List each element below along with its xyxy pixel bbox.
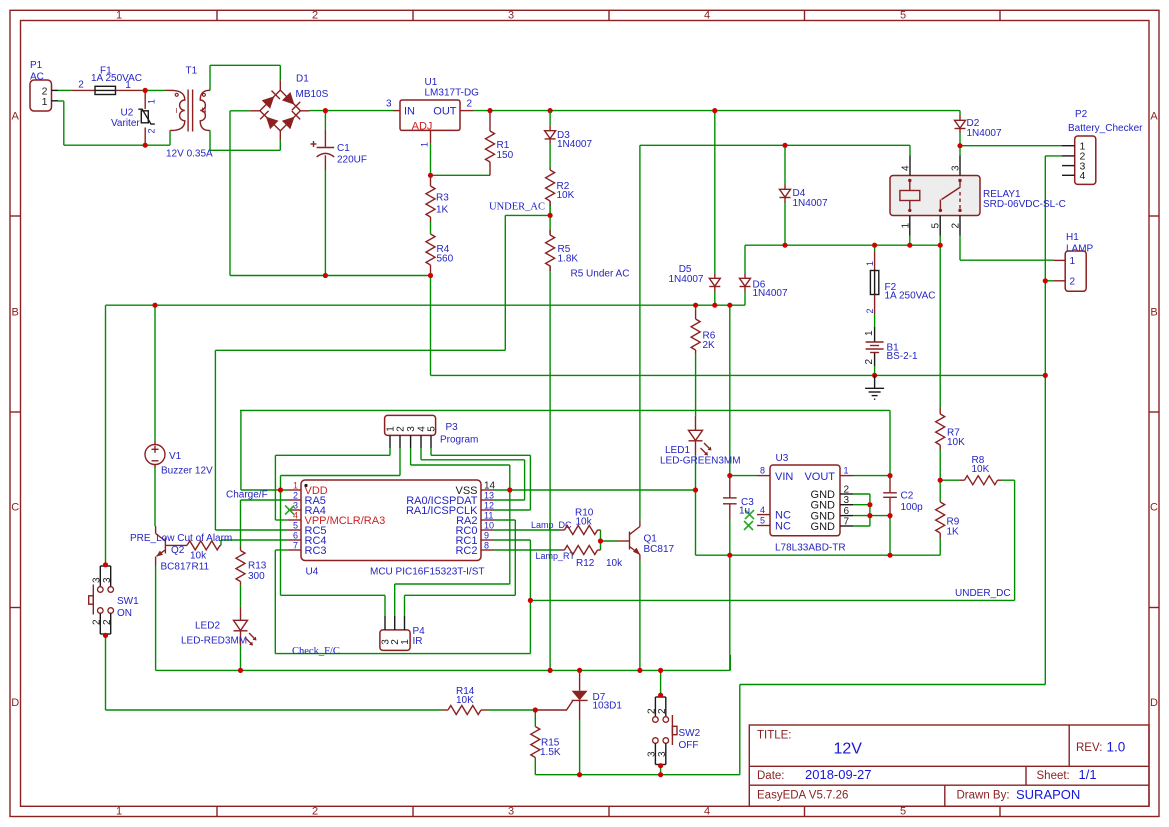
svg-text:10K: 10K: [557, 190, 575, 201]
wire VSS node down to P4 pin2: [395, 490, 510, 616]
diode D2 1N4007: [955, 116, 1002, 139]
battery B1 BS-2-1: [864, 327, 918, 366]
svg-text:Sheet:: Sheet:: [1037, 770, 1070, 782]
svg-text:10: 10: [484, 521, 494, 531]
svg-text:I: I: [176, 108, 178, 115]
no-connect X on MCU RA4: [285, 506, 294, 515]
diode D6 1N4007: [740, 274, 788, 299]
svg-text:R3: R3: [436, 193, 449, 204]
connector P3 Program: [385, 415, 479, 448]
junction node D5 top on 12V rail: [712, 108, 717, 113]
svg-text:1N4007: 1N4007: [753, 288, 788, 299]
svg-text:11: 11: [484, 511, 493, 521]
wire C1 top tap: [324, 111, 326, 130]
svg-text:2: 2: [312, 10, 318, 22]
svg-text:1.5K: 1.5K: [540, 747, 561, 758]
svg-text:2: 2: [844, 485, 850, 496]
ground symbol: [865, 375, 884, 399]
svg-text:4: 4: [704, 10, 710, 22]
wire AC input from P1 pin2 to fuse F1: [58, 89, 72, 91]
svg-text:5: 5: [427, 426, 438, 432]
wire C3 bottom to U3 ground rail: [729, 520, 731, 556]
LED2 LED-RED3MM: [181, 607, 257, 647]
resistor R14 10K: [442, 686, 488, 715]
svg-text:H1: H1: [1066, 232, 1079, 243]
capacitor C2 100p: [883, 476, 923, 519]
connector P4 IR: [380, 616, 425, 650]
svg-text:NC: NC: [775, 520, 791, 532]
svg-text:B: B: [12, 307, 19, 319]
svg-text:C1: C1: [337, 143, 350, 154]
wire main 12V rail U1 OUT to D2: [473, 111, 960, 116]
junction node battery sense rail: [1043, 373, 1048, 378]
svg-text:4: 4: [293, 511, 298, 521]
svg-text:3: 3: [508, 10, 514, 22]
svg-text:EasyEDA V5.7.26: EasyEDA V5.7.26: [757, 790, 848, 802]
svg-text:MCU PIC16F15323T-I/ST: MCU PIC16F15323T-I/ST: [370, 566, 484, 577]
svg-text:3: 3: [657, 751, 668, 757]
wire D7 anode from GND rail: [579, 669, 581, 671]
junction node H1 pin2 battery sense: [1043, 278, 1048, 283]
svg-text:P3: P3: [446, 422, 459, 433]
resistor R7 10K: [936, 408, 965, 451]
svg-text:OFF: OFF: [679, 740, 699, 751]
svg-text:1.0: 1.0: [1107, 740, 1126, 755]
junction node R14/R15/D7 gate: [533, 707, 538, 712]
svg-text:P1: P1: [30, 60, 43, 71]
wire U1 ADJ to R3: [430, 143, 432, 175]
junction node B1 bottom / AC-detect rail: [872, 373, 877, 378]
fuse F1: [72, 65, 142, 94]
svg-text:LED-RED3MM: LED-RED3MM: [181, 635, 247, 646]
wire P1 pin1 down to primary bottom rail: [58, 101, 170, 145]
svg-text:3: 3: [406, 426, 417, 432]
svg-text:4: 4: [760, 505, 765, 515]
svg-text:1: 1: [42, 96, 48, 108]
svg-text:UNDER_AC: UNDER_AC: [489, 201, 545, 212]
resistor R9 1K: [936, 502, 960, 539]
svg-text:12V: 12V: [834, 740, 863, 757]
svg-text:5: 5: [900, 806, 906, 818]
svg-text:3: 3: [386, 98, 392, 109]
wire UNDER_AC net from R2/R5 node to MCU RC5 column: [215, 215, 550, 530]
wire D2 cathode node to P2 pin1: [960, 134, 1062, 156]
svg-text:ON: ON: [117, 608, 132, 619]
svg-text:SW1: SW1: [117, 596, 139, 607]
relay RELAY1 SRD-06VDC-SL-C: [890, 156, 1066, 236]
junction node SW2 top: [658, 693, 663, 698]
wire MCU RC0 to R10: [494, 529, 559, 531]
svg-text:SRD-06VDC-SL-C: SRD-06VDC-SL-C: [983, 199, 1066, 210]
diode D5 1N4007: [668, 264, 720, 292]
svg-text:UNDER_DC: UNDER_DC: [955, 588, 1011, 599]
svg-text:1: 1: [420, 142, 430, 147]
svg-text:1A 250VAC: 1A 250VAC: [885, 291, 936, 302]
net label Check_F/C: [292, 646, 340, 657]
wire R6 from +12 rail down to LED1: [695, 305, 697, 416]
svg-text:V1: V1: [169, 451, 182, 462]
junction node MCU VDD: [278, 487, 283, 492]
svg-text:1N4007: 1N4007: [557, 139, 592, 150]
svg-text:1: 1: [293, 481, 298, 491]
svg-text:2: 2: [312, 806, 318, 818]
wire MCU RC1 to UNDER_DC node: [494, 540, 530, 600]
svg-text:4: 4: [704, 806, 710, 818]
svg-text:B: B: [1150, 307, 1157, 319]
svg-text:GND: GND: [811, 521, 836, 533]
svg-text:Check_F/C: Check_F/C: [292, 646, 340, 657]
svg-text:8: 8: [760, 466, 765, 476]
resistor R13 300: [236, 547, 267, 585]
wire VIN feed from +12 rail to U3/C3: [730, 305, 757, 475]
wire R10/R12 node to Q1 base: [601, 530, 618, 550]
thyristor D7 103D1: [535, 670, 622, 719]
svg-text:R5 Under AC: R5 Under AC: [571, 269, 630, 280]
svg-text:2: 2: [293, 491, 298, 501]
svg-text:9: 9: [484, 531, 489, 541]
svg-text:Drawn By:: Drawn By:: [957, 790, 1010, 802]
wire H1 pin2 tap: [1045, 280, 1054, 282]
bridge rectifier D1: [250, 74, 328, 141]
resistor R5 1.8K: [546, 230, 579, 271]
svg-text:1K: 1K: [947, 526, 960, 537]
connector P1 AC: [30, 60, 58, 111]
svg-text:RC2: RC2: [455, 545, 477, 557]
svg-text:2: 2: [1070, 277, 1076, 288]
regulator U3 L78L33ABD-TR: [757, 453, 853, 553]
switch SW2 OFF: [647, 697, 701, 765]
svg-text:7: 7: [293, 541, 298, 551]
wire R1 bottom to ADJ node: [431, 174, 491, 176]
junction node relay pin1: [907, 243, 912, 248]
svg-text:VOUT: VOUT: [804, 471, 835, 483]
svg-text:220UF: 220UF: [337, 155, 367, 166]
svg-text:1K: 1K: [436, 205, 449, 216]
wire U3 ground rail down to GND rail: [729, 555, 731, 670]
wire D3 to R2: [549, 144, 551, 167]
svg-text:A: A: [12, 111, 20, 123]
svg-text:U3: U3: [776, 453, 789, 464]
svg-text:2: 2: [657, 708, 668, 714]
svg-text:T1: T1: [186, 66, 198, 77]
resistor R3 1K: [426, 175, 449, 222]
junction node C2 bottom rail: [887, 553, 892, 558]
junction node R7/R8/R9: [938, 478, 943, 483]
wire relay pin5 to contact rail and down to R7: [939, 236, 941, 408]
svg-text:SW2: SW2: [679, 728, 701, 739]
wire SW1 top from +12 rail: [105, 305, 107, 565]
svg-text:R11: R11: [192, 561, 210, 572]
svg-text:2K: 2K: [703, 340, 716, 351]
wire V1 to Q2 collector: [154, 468, 156, 526]
junction node R6 top: [693, 303, 698, 308]
junction node U1 OUT / R1: [487, 108, 492, 113]
wire P3 pin2 to VDD node: [281, 448, 401, 490]
svg-text:BS-2-1: BS-2-1: [887, 351, 919, 362]
svg-text:D: D: [11, 697, 19, 709]
resistor R15 1.5K: [531, 727, 561, 759]
svg-text:10k: 10k: [190, 551, 207, 562]
junction node VOUT/C2: [887, 473, 892, 478]
wire D6 anode from relay contact rail: [744, 245, 746, 273]
wire F2 top from relay contact rail: [874, 245, 876, 252]
connector P2 Battery_Checker: [1062, 109, 1143, 184]
svg-text:3: 3: [102, 577, 113, 583]
svg-text:R12: R12: [576, 558, 595, 569]
svg-text:U4: U4: [306, 566, 319, 577]
transistor Q2 BC817: [156, 526, 192, 572]
svg-text:U1: U1: [425, 77, 438, 88]
svg-text:10k: 10k: [606, 558, 623, 569]
svg-text:U2: U2: [121, 108, 134, 119]
net label Charge/F: [226, 490, 268, 501]
wire bridge positive to main +DC rail: [310, 110, 393, 112]
junction node SW1 bottom: [103, 633, 108, 638]
wire MCU RA2 to P4 pin1: [405, 520, 516, 616]
svg-text:6: 6: [844, 506, 850, 517]
wire R8 to UNDER_DC run: [530, 480, 1014, 600]
junction node UNDER_AC R2/R5: [548, 213, 553, 218]
wire T1 secondary top to bridge top: [210, 65, 280, 90]
svg-text:Battery_Checker: Battery_Checker: [1068, 123, 1143, 134]
svg-text:OUT: OUT: [433, 106, 457, 118]
junction node R10/R12/Q1 base: [598, 538, 603, 543]
resistor R2 10K: [546, 167, 575, 215]
svg-text:2: 2: [467, 98, 473, 109]
svg-text:Charge/F: Charge/F: [226, 490, 268, 501]
junction node C1 bottom rail: [323, 273, 328, 278]
junction node D2 cathode / P2 pin1 / relay pin3: [957, 143, 962, 148]
svg-text:1N4007: 1N4007: [668, 274, 703, 285]
wire P3 pin5 to MCU ICSPCLK: [431, 448, 530, 510]
svg-text:560: 560: [437, 254, 454, 265]
junction node SW2 bottom: [658, 763, 663, 768]
junction nodes U3 GND pins: [867, 502, 892, 518]
svg-text:1.8K: 1.8K: [558, 254, 579, 265]
svg-text:3: 3: [951, 165, 962, 171]
svg-text:150: 150: [497, 150, 514, 161]
svg-text:1/1: 1/1: [1079, 767, 1097, 782]
wire T1 secondary bottom to bridge bottom: [210, 130, 280, 150]
svg-text:2: 2: [865, 308, 875, 313]
net label PRE_Low Cut of Alarm: [130, 533, 232, 544]
svg-text:10K: 10K: [947, 437, 965, 448]
net label Lamp_RT: [536, 551, 576, 561]
svg-text:1: 1: [1070, 256, 1076, 267]
svg-text:REV:: REV:: [1076, 742, 1102, 754]
wire relay contact rail: [745, 244, 940, 246]
capacitor C1: [311, 129, 368, 170]
svg-text:1: 1: [865, 261, 875, 266]
wire relay coil rail from Q1 collector: [640, 145, 910, 520]
pin number 2 on P1-F1 wire: [78, 80, 84, 91]
svg-text:Variter: Variter: [111, 118, 140, 129]
wire D5 anode from 12V rail: [714, 111, 716, 274]
svg-text:1N4007: 1N4007: [793, 198, 828, 209]
resistor R6->LED1 column: LED1 LED-GREEN3MM: [660, 416, 741, 466]
svg-text:1: 1: [864, 330, 875, 336]
junction node relay pin5 / R7: [938, 243, 943, 248]
junction nodes on battery sense rail: [577, 772, 663, 777]
wire P3 pin3 to VSS node: [411, 448, 510, 490]
svg-text:A: A: [1150, 111, 1158, 123]
svg-text:VIN: VIN: [775, 471, 793, 483]
wire R2 bottom node to R5: [549, 201, 551, 235]
svg-text:C: C: [11, 502, 19, 514]
wire D7 cathode down to battery sense rail: [579, 720, 581, 775]
resistor R10 10k: [559, 508, 601, 535]
junction node Check_F/C / RC1 / UNDER_DC: [528, 598, 533, 603]
svg-text:BC817: BC817: [161, 561, 192, 572]
svg-text:C: C: [1150, 502, 1158, 514]
svg-text:L78L33ABD-TR: L78L33ABD-TR: [775, 542, 846, 553]
svg-text:TITLE:: TITLE:: [757, 730, 792, 742]
net label UNDER_DC: [955, 588, 1011, 599]
wire R9 bottom to U3 ground rail: [939, 539, 941, 556]
wire B1 negative to AC-detect rail and ground: [874, 366, 876, 375]
svg-text:5: 5: [931, 223, 942, 229]
buzzer V1: [145, 441, 213, 477]
junction node ADJ/R3: [428, 173, 433, 178]
wire U3 GND pins bus: [853, 494, 890, 526]
junction node VIN/C3: [727, 473, 732, 478]
svg-text:12V 0.35A: 12V 0.35A: [166, 149, 213, 160]
junction node U2 bottom rail: [143, 143, 148, 148]
svg-text:PRE_Low Cut of Alarm: PRE_Low Cut of Alarm: [130, 533, 232, 544]
svg-text:1: 1: [147, 99, 157, 104]
junction node C3 bottom rail: [727, 553, 732, 558]
svg-text:1: 1: [901, 223, 912, 229]
svg-text:2: 2: [78, 80, 84, 91]
wire P3 pin4 to MCU ICSPDAT: [421, 448, 525, 500]
wire R11 to MCU RC4 and P4 pin3 column: [221, 540, 288, 545]
wire R13 to LED2: [240, 585, 242, 607]
svg-text:LED2: LED2: [195, 621, 220, 632]
svg-text:1A 250VAC: 1A 250VAC: [91, 73, 142, 84]
wire SW2 bottom to battery sense rail: [660, 766, 662, 775]
wire VSS rail right of MCU: [494, 489, 696, 491]
svg-text:D: D: [1150, 697, 1158, 709]
wire F2 to B1: [874, 314, 876, 327]
junction node VSS / P3 pin3: [507, 487, 512, 492]
svg-text:2: 2: [951, 223, 962, 229]
svg-text:1: 1: [116, 806, 122, 818]
svg-text:RC3: RC3: [305, 545, 327, 557]
diode D3 1N4007: [545, 111, 593, 150]
svg-text:Date:: Date:: [757, 770, 785, 782]
svg-text:1u: 1u: [739, 505, 750, 516]
svg-text:12: 12: [484, 501, 494, 511]
wire LED1 cathode to VSS rail: [695, 455, 697, 555]
wire SW1 bottom to bottom rail: [106, 635, 442, 710]
svg-text:5: 5: [293, 521, 298, 531]
wire MCU RC2 to R12: [494, 549, 559, 551]
svg-text:MB10S: MB10S: [296, 89, 329, 100]
svg-text:8: 8: [484, 541, 489, 551]
pin number 1 on F1-T1 wire: [125, 80, 131, 91]
wire relay pin1 to contact rail: [909, 236, 911, 246]
junction node R4 bottom: [428, 273, 433, 278]
junction node VIN column top: [727, 303, 732, 308]
wire bridge negative to C1 bottom rail: [230, 111, 431, 276]
wire VOUT to C2 top: [853, 475, 890, 477]
svg-text:BC817: BC817: [644, 544, 675, 555]
svg-text:5: 5: [900, 10, 906, 22]
svg-text:1N4007: 1N4007: [967, 128, 1002, 139]
svg-text:4: 4: [901, 165, 912, 171]
svg-text:10K: 10K: [456, 695, 474, 706]
svg-text:1: 1: [844, 466, 849, 476]
svg-text:P2: P2: [1075, 109, 1088, 120]
junction node D4 bottom on contact rail: [782, 243, 787, 248]
junction node C1 top on 12V rail: [323, 108, 328, 113]
wire C2 bottom to U3 ground rail: [889, 519, 891, 555]
net label UNDER_AC: [489, 201, 545, 212]
resistor R8 10K: [960, 455, 1002, 485]
wire D4 flyback across relay coil: [784, 145, 786, 245]
wire buzzer V1 feed from +12 rail: [154, 305, 156, 441]
wire Q2 emitter to GND rail: [156, 566, 731, 670]
title block: [749, 725, 1149, 806]
svg-text:3: 3: [508, 806, 514, 818]
wire Q1 emitter to GND rail: [639, 561, 641, 671]
wire U3 ground rail: [696, 554, 941, 556]
svg-text:10K: 10K: [972, 464, 990, 475]
junction node VSS rail / LED1: [693, 487, 698, 492]
wire R14 to R15/D7 gate node: [487, 709, 535, 711]
svg-text:Lamp_RT: Lamp_RT: [536, 551, 576, 561]
wire C1 bottom to ground rail: [324, 170, 326, 276]
wire LED2 cathode to GND rail: [240, 646, 242, 671]
svg-text:IR: IR: [413, 636, 423, 647]
svg-text:3: 3: [844, 495, 850, 506]
svg-text:5: 5: [760, 516, 765, 526]
wire +12 battery rail: [106, 304, 746, 306]
svg-text:300: 300: [248, 571, 265, 582]
varistor U2: [111, 90, 157, 145]
svg-text:ADJ: ADJ: [412, 120, 433, 132]
junction node F1/U2/T1 top: [143, 88, 148, 93]
wire P3 pin1 to MCU VPP: [275, 448, 390, 520]
wire R15 top: [534, 710, 536, 727]
MCU U4 PIC16F15323: [288, 480, 496, 577]
svg-text:LM317T-DG: LM317T-DG: [425, 88, 480, 99]
net label Lamp_DC: [531, 520, 572, 530]
svg-text:1: 1: [125, 80, 131, 91]
svg-text:2018-09-27: 2018-09-27: [805, 767, 872, 782]
junction node SW1 top: [103, 562, 108, 567]
svg-text:C2: C2: [901, 491, 914, 502]
svg-text:13: 13: [484, 491, 494, 501]
svg-text:6: 6: [293, 531, 298, 541]
junction node buzzer column top: [152, 303, 157, 308]
svg-text:Q2: Q2: [171, 545, 185, 556]
junction node main rail to relay column: [712, 303, 717, 308]
svg-text:1: 1: [116, 10, 122, 22]
svg-text:AC: AC: [30, 71, 44, 82]
wire D5 cathode to +12 battery rail: [714, 292, 716, 306]
junction node F2 top: [872, 243, 877, 248]
junction node D3 top on 12V rail: [548, 108, 553, 113]
svg-text:2: 2: [864, 359, 875, 365]
diode D4 1N4007: [780, 185, 828, 210]
svg-text:N: N: [201, 108, 206, 115]
wire R5 bottom long vertical to ground rail: [549, 266, 551, 671]
resistor R12 10k: [559, 546, 623, 570]
wire Charge/F net MCU RA5 to R13: [241, 500, 289, 547]
wire P2 pin2 battery sense long run: [535, 156, 1062, 775]
resistor R1 150: [486, 111, 514, 176]
